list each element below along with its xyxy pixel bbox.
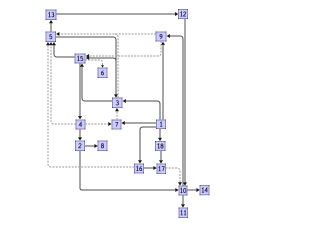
edge 10->14 <box>187 188 200 192</box>
edge 1->3 <box>123 99 160 120</box>
edge 10->9 <box>167 34 183 186</box>
edge 4->2 <box>78 129 82 141</box>
edge 3->15 lower <box>80 64 113 102</box>
node 17 <box>157 164 167 175</box>
edge 15->5 <box>52 42 75 57</box>
edge 2->8 <box>85 144 98 148</box>
node 13 <box>46 10 57 21</box>
edge 9->15 <box>86 41 161 58</box>
edge 17->10 <box>166 168 183 186</box>
node 7 <box>112 120 122 130</box>
edge 16->17 <box>144 166 157 170</box>
node 3 <box>112 98 123 109</box>
edge 9->5 <box>56 32 156 36</box>
node 8 <box>98 141 108 152</box>
edge 18->17 <box>159 151 163 164</box>
node 1 <box>156 120 166 130</box>
node 18 <box>155 141 166 151</box>
edge 1->16 <box>138 127 157 164</box>
edge 1->18 <box>158 129 162 142</box>
node 2 <box>75 141 85 152</box>
node 15 <box>75 54 86 64</box>
node 4 <box>76 120 86 130</box>
node 12 <box>178 9 188 19</box>
node 14 <box>200 185 210 195</box>
edge 13->12 <box>56 12 178 16</box>
node 11 <box>179 208 189 219</box>
edge 15->6 <box>85 60 104 68</box>
edge 1->7 <box>122 121 157 125</box>
edge 4->7 <box>85 122 112 126</box>
edge 4->5 <box>49 42 76 124</box>
edge 5->3 <box>56 37 119 98</box>
node 16 <box>134 164 144 174</box>
edge 12->10 <box>183 19 187 186</box>
edge 3->5 <box>115 34 118 98</box>
edge 2->10 <box>80 151 179 193</box>
node 10 <box>179 186 188 196</box>
node 9 <box>156 32 167 42</box>
node 6 <box>98 68 108 79</box>
edge 7->3 <box>115 108 119 120</box>
edge 5->15 branch <box>86 56 116 61</box>
node 5 <box>46 32 57 43</box>
edge 1->9 <box>161 42 165 120</box>
edge 16->5 <box>46 42 135 167</box>
edge 5->13 <box>49 20 53 32</box>
edge 10->11 <box>181 195 185 208</box>
edge 15->4 <box>78 63 82 119</box>
